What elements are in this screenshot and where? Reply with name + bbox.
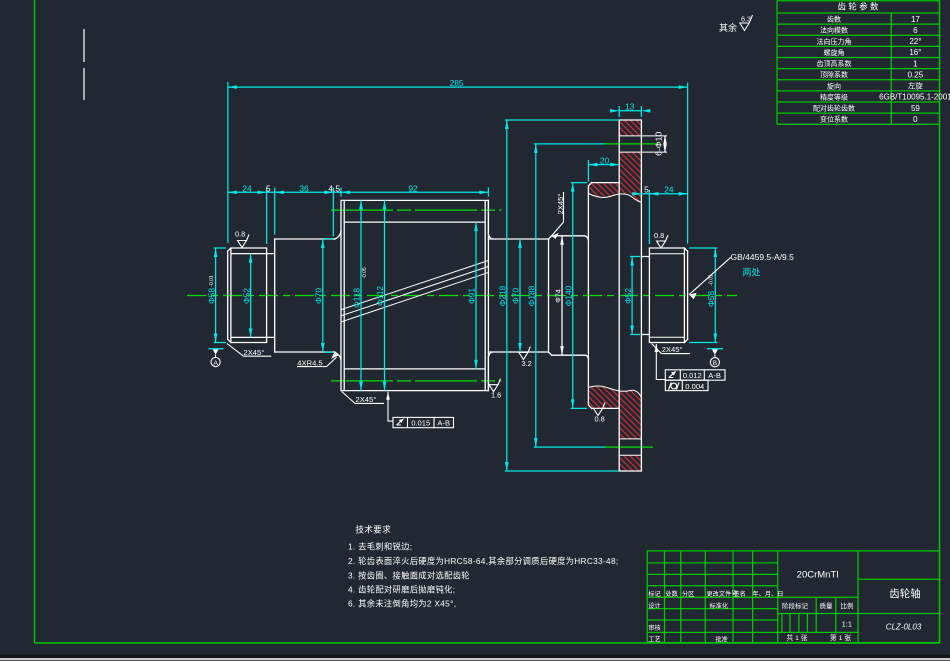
svg-text:-0.05: -0.05 bbox=[362, 267, 368, 279]
dim phi140 hub bbox=[563, 183, 587, 409]
svg-text:22°: 22° bbox=[909, 37, 921, 46]
main centerline (axis) bbox=[187, 295, 737, 297]
svg-text:法向压力角: 法向压力角 bbox=[817, 37, 852, 46]
tolerance frame cylindricity 0.004 bbox=[665, 380, 708, 391]
svg-text:处数: 处数 bbox=[666, 590, 679, 598]
tolerance frame runout 0.012 A-B bbox=[655, 344, 726, 380]
svg-text:A-B: A-B bbox=[437, 418, 450, 427]
svg-text:4.5: 4.5 bbox=[328, 183, 340, 193]
dim phi58 right journal bbox=[689, 248, 717, 343]
gear body phi118 bbox=[341, 200, 488, 390]
svg-text:2X45°: 2X45° bbox=[662, 345, 683, 354]
svg-text:4XR4.5: 4XR4.5 bbox=[297, 358, 322, 367]
svg-text:0.015: 0.015 bbox=[411, 418, 430, 427]
hub phi140 bbox=[588, 183, 619, 409]
svg-text:比例: 比例 bbox=[841, 601, 854, 610]
right journal phi58 bbox=[649, 248, 687, 343]
svg-text:0.25: 0.25 bbox=[908, 71, 924, 80]
svg-text:0.004: 0.004 bbox=[685, 382, 704, 391]
svg-text:0.8: 0.8 bbox=[595, 415, 605, 424]
dim phi52 neck bbox=[623, 257, 640, 335]
bottom window strip bbox=[0, 655, 950, 661]
fillet note 4xR4.5 bbox=[297, 353, 338, 368]
svg-text:0.012: 0.012 bbox=[683, 371, 702, 380]
roughness 0.8 hub face bbox=[594, 403, 606, 424]
svg-text:3. 按齿圈、接触面成对选配齿轮: 3. 按齿圈、接触面成对选配齿轮 bbox=[348, 571, 470, 581]
phi70 right section bbox=[488, 200, 548, 390]
svg-text:左旋: 左旋 bbox=[908, 82, 923, 91]
svg-text:Φ70: Φ70 bbox=[313, 288, 323, 304]
svg-text:变位系数: 变位系数 bbox=[820, 115, 848, 124]
svg-text:5: 5 bbox=[266, 183, 271, 193]
roughness 3.2 shaft right of gear bbox=[519, 347, 532, 369]
svg-text:1.6: 1.6 bbox=[491, 391, 501, 400]
hatch rim bottom block bbox=[619, 455, 641, 471]
phi74 collar bbox=[549, 236, 589, 359]
svg-text:齿顶高系数: 齿顶高系数 bbox=[817, 59, 852, 68]
hatch rim top block bbox=[619, 120, 641, 136]
dim 6-phi10 bolt holes (white) bbox=[654, 132, 667, 156]
gear left relief groove 4.5 bbox=[333, 231, 341, 360]
gear root lines phi91 bbox=[344, 222, 485, 369]
svg-text:共 1 张: 共 1 张 bbox=[786, 633, 807, 642]
svg-text:16°: 16° bbox=[909, 48, 921, 57]
gear parameter table bbox=[777, 1, 950, 125]
svg-text:20CrMnTI: 20CrMnTI bbox=[797, 570, 839, 581]
svg-text:2. 轮齿表面淬火后硬度为HRC58-64,其余部分调质后硬: 2. 轮齿表面淬火后硬度为HRC58-64,其余部分调质后硬度为HRC33-48… bbox=[348, 556, 618, 566]
svg-text:0.8: 0.8 bbox=[235, 230, 245, 239]
hatch web lower block bbox=[588, 386, 641, 439]
svg-text:技术要求: 技术要求 bbox=[355, 524, 391, 535]
svg-text:1: 1 bbox=[913, 59, 918, 68]
svg-text:Φ52: Φ52 bbox=[623, 288, 633, 304]
svg-text:Φ58: Φ58 bbox=[706, 291, 716, 307]
svg-text:Φ58: Φ58 bbox=[207, 288, 217, 304]
dim phi70 left bbox=[313, 239, 333, 353]
chamfer note 2x45 collar (rotated) bbox=[552, 192, 566, 239]
svg-text:36: 36 bbox=[299, 183, 309, 193]
svg-text:1:1: 1:1 bbox=[842, 620, 852, 629]
phi70 section bbox=[275, 239, 334, 352]
svg-text:阶段标记: 阶段标记 bbox=[782, 601, 809, 610]
rim phi218 bbox=[619, 120, 641, 471]
svg-text:齿 轮 参 数: 齿 轮 参 数 bbox=[837, 2, 879, 12]
svg-text:Φ188: Φ188 bbox=[527, 285, 537, 306]
svg-text:13: 13 bbox=[625, 102, 635, 112]
svg-text:两处: 两处 bbox=[743, 267, 761, 278]
svg-text:Φ91: Φ91 bbox=[467, 288, 477, 304]
svg-text:5: 5 bbox=[644, 185, 649, 195]
svg-text:配对齿轮齿数: 配对齿轮齿数 bbox=[813, 104, 855, 113]
gear pitch line bottom bbox=[331, 380, 502, 382]
svg-text:3.2: 3.2 bbox=[522, 359, 532, 368]
bolt hole bottom edges bbox=[619, 439, 641, 455]
datum A bbox=[209, 349, 224, 367]
svg-text:CLZ-0L03: CLZ-0L03 bbox=[886, 623, 922, 632]
dim 13 rim width bbox=[610, 102, 650, 117]
shaft outline bbox=[228, 120, 688, 471]
dim phi74 collar (white) bbox=[555, 236, 563, 355]
svg-text:6-Φ10: 6-Φ10 bbox=[654, 132, 664, 156]
tolerance frame runout 0.015 A-B bbox=[386, 392, 453, 428]
svg-text:质量: 质量 bbox=[820, 601, 834, 610]
web break line bottom bbox=[588, 386, 641, 398]
svg-text:92: 92 bbox=[408, 183, 418, 193]
right spline root lines bbox=[650, 254, 684, 338]
svg-text:Φ74: Φ74 bbox=[555, 289, 562, 302]
svg-text:GB/4459.5-A/9.5: GB/4459.5-A/9.5 bbox=[731, 252, 795, 262]
spline note GB/4459.5 bbox=[689, 252, 794, 299]
svg-text:24: 24 bbox=[664, 185, 674, 195]
svg-text:工艺: 工艺 bbox=[648, 636, 660, 644]
svg-text:20: 20 bbox=[600, 155, 610, 165]
svg-text:24: 24 bbox=[242, 183, 252, 193]
leftover dashed line top-left bbox=[83, 29, 85, 100]
svg-text:设计: 设计 bbox=[648, 602, 660, 610]
chamfer note 2x45 gear left bbox=[342, 392, 384, 404]
svg-text:分区: 分区 bbox=[682, 590, 694, 598]
dim 20 hub boss bbox=[588, 155, 619, 181]
dim phi58 left journal bbox=[207, 248, 227, 343]
hatch web upper block bbox=[588, 152, 641, 202]
svg-text:6. 其余未注倒角均为2 X45°,: 6. 其余未注倒角均为2 X45°, bbox=[348, 599, 456, 609]
bolt hole centerline top bbox=[604, 143, 658, 145]
left spline root lines bbox=[232, 254, 267, 338]
dims 5 and 24 right end bbox=[632, 185, 688, 244]
web break line top bbox=[588, 194, 641, 203]
svg-text:批准: 批准 bbox=[716, 636, 728, 644]
roughness 0.8 left journal bbox=[235, 230, 249, 248]
svg-text:第 1 张: 第 1 张 bbox=[830, 633, 851, 642]
dim phi188 bolt circle bbox=[527, 144, 606, 447]
svg-text:审核: 审核 bbox=[648, 624, 660, 632]
dim phi91 gear root bbox=[467, 222, 478, 369]
svg-text:螺旋角: 螺旋角 bbox=[824, 48, 845, 57]
svg-text:标准化: 标准化 bbox=[710, 602, 729, 610]
left journal phi58 bbox=[228, 248, 267, 343]
svg-text:Φ118: Φ118 bbox=[352, 288, 362, 308]
svg-text:齿数: 齿数 bbox=[827, 15, 841, 24]
svg-text:6.3: 6.3 bbox=[741, 15, 751, 24]
left relief groove phi52 bbox=[267, 239, 275, 352]
dim phi70 right bbox=[511, 239, 522, 352]
title block bbox=[647, 551, 939, 644]
svg-text:0: 0 bbox=[913, 115, 918, 124]
dim phi112 gear chamfer bbox=[375, 200, 386, 390]
surface note top: qiyu 6.3 bbox=[719, 15, 753, 34]
svg-text:顶隙系数: 顶隙系数 bbox=[820, 70, 848, 79]
svg-text:2X45°: 2X45° bbox=[356, 395, 377, 404]
svg-text:2X45°: 2X45° bbox=[244, 348, 265, 357]
dim phi118 gear tip bbox=[352, 200, 368, 390]
technical requirements text bbox=[348, 524, 618, 609]
svg-text:6: 6 bbox=[913, 26, 918, 35]
svg-text:其余: 其余 bbox=[719, 22, 737, 33]
svg-text:齿轮轴: 齿轮轴 bbox=[889, 587, 921, 600]
svg-text:59: 59 bbox=[911, 104, 920, 113]
svg-text:B: B bbox=[713, 360, 718, 367]
svg-text:Φ218: Φ218 bbox=[498, 285, 508, 306]
svg-text:Φ70: Φ70 bbox=[511, 288, 521, 304]
svg-text:Φ52: Φ52 bbox=[241, 288, 251, 304]
svg-text:17: 17 bbox=[911, 15, 920, 24]
gear helix direction lines bbox=[342, 261, 488, 322]
svg-text:4. 齿轮配对研磨后拋磨钝化;: 4. 齿轮配对研磨后拋磨钝化; bbox=[348, 585, 455, 595]
svg-text:6GB/T10095.1-2001: 6GB/T10095.1-2001 bbox=[879, 93, 950, 102]
datum B bbox=[707, 349, 723, 367]
svg-text:-0.01: -0.01 bbox=[209, 275, 215, 287]
chamfer note 2x45 left journal bbox=[227, 344, 271, 357]
svg-text:法向模数: 法向模数 bbox=[820, 26, 848, 35]
svg-text:285: 285 bbox=[450, 78, 464, 88]
svg-text:精度等级: 精度等级 bbox=[820, 92, 848, 101]
svg-text:旋向: 旋向 bbox=[827, 81, 841, 90]
dim 285 overall bbox=[228, 78, 688, 244]
dim phi218 rim bbox=[498, 120, 620, 471]
svg-text:1. 去毛刺和锐边;: 1. 去毛刺和锐边; bbox=[348, 542, 412, 552]
svg-text:0.8: 0.8 bbox=[654, 231, 664, 240]
gear pitch line top bbox=[331, 209, 502, 211]
svg-text:Φ112: Φ112 bbox=[375, 286, 385, 306]
chamfer note 2x45 right journal bbox=[652, 344, 691, 355]
svg-text:签名: 签名 bbox=[734, 590, 746, 598]
bolt hole top edges bbox=[619, 136, 666, 152]
bolt hole centerline bottom bbox=[605, 446, 653, 448]
svg-text:年、月、日: 年、月、日 bbox=[753, 590, 784, 598]
svg-text:标记: 标记 bbox=[648, 590, 660, 598]
roughness 1.6 gear face bbox=[489, 379, 501, 400]
svg-text:A: A bbox=[213, 360, 218, 367]
roughness 0.8 right journal bbox=[654, 231, 668, 248]
svg-text:A-B: A-B bbox=[708, 371, 721, 380]
svg-text:Φ140: Φ140 bbox=[563, 285, 573, 306]
dim chain 24 5 36 4.5 92 bbox=[228, 183, 489, 244]
dim phi52 left spline bbox=[241, 254, 252, 338]
neck phi48 bbox=[641, 257, 649, 335]
